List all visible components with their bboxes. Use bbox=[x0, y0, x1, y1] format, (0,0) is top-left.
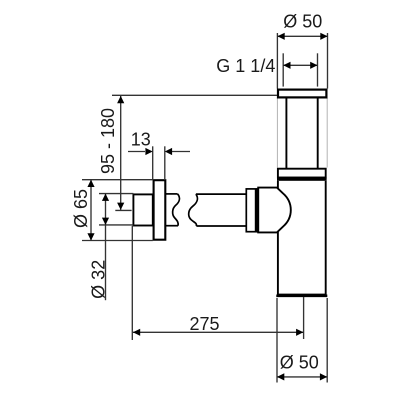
top flange bbox=[278, 90, 326, 98]
mounting reference line bbox=[112, 94, 277, 96]
svg-text:Ø 65: Ø 65 bbox=[71, 189, 91, 228]
dimension G 1 1/4 : extension ticks bbox=[282, 53, 284, 86]
dimension Ø50 top : dimension line bbox=[277, 35, 327, 37]
dimension G 1 1/4 : dimension line bbox=[283, 64, 317, 66]
dimension 13 : right tail and arrow bbox=[172, 151, 190, 153]
pipe centreline tick bbox=[115, 209, 131, 211]
dimension 13 : left tail and arrow bbox=[128, 151, 145, 153]
side elbow into body bbox=[258, 188, 291, 233]
dimension 275 : left extension line bbox=[131, 226, 133, 340]
elbow compression nut bbox=[246, 189, 258, 232]
wall flange bbox=[154, 180, 166, 240]
wall pipe break curve B bbox=[189, 194, 198, 226]
dimension Ø65 : dimension line bbox=[90, 180, 92, 241]
dimension Ø65 : down arrow bbox=[87, 233, 94, 240]
svg-text:Ø 32: Ø 32 bbox=[89, 260, 109, 299]
dimension 275 : left arrow bbox=[133, 329, 140, 336]
dimension Ø50 top : right arrow bbox=[320, 33, 327, 40]
dimension Ø50 bottom : left arrow bbox=[277, 373, 284, 380]
svg-text:95 - 180: 95 - 180 bbox=[98, 108, 118, 174]
dimension G 1 1/4 : left arrow bbox=[283, 62, 290, 69]
dimension Ø32 : dimension/leader line bbox=[105, 194, 107, 301]
dimension 13 : extension lines bbox=[152, 146, 154, 180]
dimension Ø32 : up arrow bbox=[102, 194, 109, 201]
dimension Ø50 bottom : right arrow bbox=[320, 373, 327, 380]
dimension Ø50 top : extension lines bbox=[276, 33, 278, 89]
svg-text:275: 275 bbox=[189, 314, 219, 334]
top union nut black band bbox=[277, 178, 327, 181]
wall pipe segment A (left of break) bbox=[166, 193, 178, 195]
vertical inlet pipe bbox=[285, 99, 287, 169]
top union nut bbox=[278, 169, 326, 178]
trap body bottom thick edge bbox=[276, 294, 327, 297]
faint body neck extension lines bbox=[276, 98, 278, 168]
svg-text:13: 13 bbox=[131, 130, 151, 150]
svg-text:Ø 50: Ø 50 bbox=[283, 12, 322, 32]
trap body bbox=[278, 181, 326, 295]
dimension 95-180 : up arrow bbox=[117, 96, 124, 103]
dimension G 1 1/4 : right arrow bbox=[310, 62, 317, 69]
wall pipe segment B (right of break) bbox=[196, 193, 246, 195]
dimension 275 : dimension line bbox=[133, 331, 304, 333]
dimension Ø50 top : left arrow bbox=[277, 33, 284, 40]
dimension Ø50 bottom : extension lines bbox=[276, 298, 278, 383]
elbow nut black band bbox=[255, 189, 258, 232]
dimension 95-180 : dimension line bbox=[120, 96, 122, 210]
svg-text:Ø 50: Ø 50 bbox=[280, 352, 319, 372]
outlet centreline bbox=[303, 297, 305, 339]
dimension Ø50 bottom : dimension line bbox=[277, 376, 327, 378]
dimension 275 : right arrow bbox=[296, 329, 303, 336]
dimension Ø65 : extension lines bbox=[82, 179, 153, 181]
dimension Ø32 : extension lines bbox=[99, 193, 133, 195]
dimension Ø32 : down arrow bbox=[102, 218, 109, 225]
dimension Ø65 : up arrow bbox=[87, 180, 94, 187]
svg-text:G 1 1/4: G 1 1/4 bbox=[216, 56, 275, 76]
dimension 95-180 : down arrow bbox=[117, 203, 124, 210]
wall pipe break curve A bbox=[173, 194, 180, 226]
wall socket bbox=[133, 194, 152, 225]
